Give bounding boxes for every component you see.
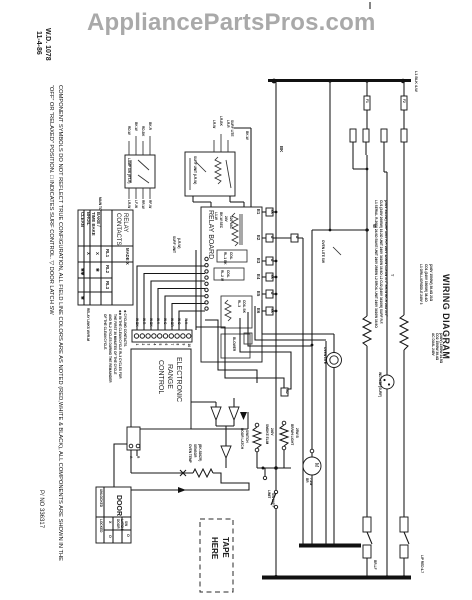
svg-text:E2: E2 [256,235,261,241]
wire line x333 oven lite [333,334,335,545]
note cycling contacts [103,310,127,383]
bottom bus L2 [262,575,411,580]
svg-text:OVEN LITE: OVEN LITE [323,347,327,364]
table header relay contacts [115,213,130,265]
svg-text:BROIL: BROIL [86,212,91,226]
wire stubs above SW2 [214,134,228,152]
svg-text:CO2 1500W 38.4Ω: CO2 1500W 38.4Ω [435,333,439,361]
wire line x367 lower [366,346,368,517]
wire main line BK x276 [275,81,277,577]
oven lite lamp [327,353,342,368]
lamp IND LITE SURF [380,375,394,389]
label 120 VAC [214,212,233,229]
table row labels [80,212,101,236]
svg-text:RL2: RL2 [105,265,110,274]
label W2 box [281,388,289,396]
svg-text:6: 6 [164,344,168,346]
svg-text:W-BK: W-BK [149,318,153,327]
svg-text:SW: SW [124,521,128,526]
triangle connector V1 [191,402,221,426]
svg-text:UNLOCKED: UNLOCKED [99,489,103,508]
tape here box [200,519,233,592]
svg-text:RL-3: RL-3 [237,300,241,307]
relay RL2 box [214,268,244,281]
svg-text:AppliancePartsPros.com: AppliancePartsPros.com [87,9,376,36]
svg-text:BK: BK [270,309,274,314]
svg-text:(240V) 2350W 24.5Ω: (240V) 2350W 24.5Ω [439,333,443,364]
svg-text:DOOR LATCH: DOOR LATCH [240,428,244,450]
svg-text:COIL: COIL [226,270,230,278]
table RL labels [105,249,110,290]
connector pin numbers [135,344,191,348]
switch diag x367 [367,532,372,544]
wire line x330 [329,81,331,230]
fuse F2 [401,81,407,129]
svg-text:RL3: RL3 [105,281,110,290]
svg-text:LIP RED 4-7: LIP RED 4-7 [420,555,424,573]
labels above SW2 [212,116,230,128]
wire E1 [262,208,277,216]
door table [96,487,131,543]
svg-text:F2: F2 [402,99,406,103]
svg-text:RD-W: RD-W [127,126,131,135]
relay contact boxes right pair [381,129,407,172]
oven lite switch [321,240,341,263]
relay board left terminals [205,257,208,310]
svg-text:SWITCH: SWITCH [245,430,249,443]
labels E1-E6 [256,209,261,314]
label oven light [290,424,299,445]
svg-text:SW 240°F: SW 240°F [271,493,275,508]
svg-text:OF THE CLEAN CYCLE.: OF THE CLEAN CYCLE. [103,314,107,350]
svg-text:X: X [86,252,91,255]
wire to bus x404 [403,558,405,577]
svg-text:11-4-86: 11-4-86 [35,31,42,55]
svg-text:MADE X: MADE X [125,248,130,265]
svg-text:IND LITE (SURF): IND LITE (SURF) [378,372,382,397]
svg-text:SENSOR: SENSOR [193,444,197,458]
svg-text:F1: F1 [365,99,369,103]
svg-text:✱ CYCLING CONTACTS.: ✱ CYCLING CONTACTS. [123,310,127,347]
svg-text:HERE: HERE [210,537,219,560]
svg-text:7: 7 [170,344,174,346]
svg-text:3: 3 [147,344,151,346]
wire E5 [262,290,277,298]
table X marks [80,252,100,300]
svg-text:RELAY: RELAY [122,213,128,232]
wire line x404 [403,142,405,315]
smoke eliminator R1 [253,423,261,468]
wire color labels above connector [135,318,188,327]
svg-text:W-R: W-R [142,318,146,325]
svg-text:BLOWER: BLOWER [232,337,236,352]
wire stubs above SW1 [129,136,150,155]
svg-text:RELAY LINKS WVR-M: RELAY LINKS WVR-M [86,308,90,341]
wire E2 [262,234,303,242]
svg-text:W: W [295,236,299,239]
svg-text:W-Y: W-Y [156,318,160,325]
wire line x404 lower [403,350,405,517]
svg-text:(BK-528ZR): (BK-528ZR) [198,444,202,461]
svg-text:BK-R: BK-R [148,122,152,131]
svg-text:OVEN LITE SW: OVEN LITE SW [321,240,325,263]
svg-text:O: O [126,534,130,537]
svg-text:E6: E6 [256,308,261,314]
svg-text:7.2W: 7.2W [309,478,313,485]
svg-text:O: O [108,535,112,538]
svg-text:✱: ✱ [80,296,85,300]
svg-text:BK: BK [279,146,284,153]
svg-text:L1 GRILL/GRIDDLE 240V 3: L1 GRILL/GRIDDLE 240V 3 [419,264,423,305]
svg-text:BK-W: BK-W [134,122,138,131]
svg-text:W-V: W-V [184,318,188,325]
svg-text:LR-W: LR-W [127,200,131,208]
svg-text:RANGE: RANGE [166,364,173,389]
svg-text:LIMIT: LIMIT [267,490,271,498]
svg-text:L1-W: L1-W [214,212,218,220]
svg-text:9: 9 [181,344,185,346]
label oven temp sensor [188,444,202,464]
wire line x312 [311,230,314,545]
wire x196 to ERC strip [195,250,197,330]
ERC connector strip [132,330,192,342]
spec text column bake broil [374,200,388,328]
svg-text:BK-W: BK-W [245,131,249,140]
svg-text:W: W [270,236,274,239]
label limit sw [267,490,275,508]
wire bundle relay board to ERC [137,266,205,331]
labels above SW1 [127,122,152,137]
top edge tick [369,2,371,9]
relay RL3 box [221,296,252,328]
svg-text:BR: BR [305,478,309,483]
svg-text:W: W [270,259,274,262]
wire y468 [257,466,291,479]
svg-text:RF-W: RF-W [148,200,152,208]
relay RL1 box [217,250,247,265]
wire E6 [262,307,277,315]
svg-text:M: M [313,463,319,467]
svg-text:LR-W: LR-W [212,120,216,128]
svg-text:LR-R: LR-R [226,120,230,128]
svg-text:2: 2 [141,344,145,346]
svg-text:25W B: 25W B [295,428,299,438]
svg-text:120 VAC: 120 VAC [229,216,233,229]
fuse F1 [364,81,370,129]
svg-text:RR-W: RR-W [141,200,145,209]
surf unit switch box SW2 [185,152,235,196]
relay contact boxes left pair [350,129,369,169]
svg-text:E1: E1 [256,209,261,215]
label unlocked locked [99,489,103,533]
wire tab to door table [114,444,127,489]
svg-text:E4: E4 [256,274,261,280]
svg-text:240V: 240V [270,428,274,436]
spec text ac dual [431,333,443,364]
svg-text:CO1 (240V 1500W) 38.4Ω: CO1 (240V 1500W) 38.4Ω [424,264,428,302]
label electronic range control [157,357,182,402]
limit switch [271,490,278,508]
switch diag x404 [404,532,409,544]
svg-text:CLEAN: CLEAN [80,212,85,227]
wire bundle ERC to right [196,300,334,392]
svg-text:AC DUAL 240V: AC DUAL 240V [431,333,435,356]
relay board U2 [201,207,262,362]
wire line x326 [325,341,327,545]
oven temp sensor loop [129,450,249,493]
svg-text:W: W [270,292,274,295]
labels below SW1 [127,200,152,209]
motor M1 [303,449,321,475]
interlock box lower x367 [363,545,371,558]
svg-text:1: 1 [135,344,139,346]
blower relay box [221,334,250,358]
svg-text:AND RL2 CYCLES DURING THE REMA: AND RL2 CYCLES DURING THE REMAINDER [108,314,112,383]
svg-text:10: 10 [187,344,191,348]
wire E4 [262,273,277,281]
wire line x387 lower [386,389,388,577]
relay contacts table [78,210,133,305]
svg-text:BR-LF: BR-LF [373,560,377,570]
svg-text:ELECTRONIC: ELECTRONIC [175,357,182,402]
svg-text:X: X [95,252,100,255]
neutral mid bar [299,544,361,548]
svg-text:L1 BLK 4-W: L1 BLK 4-W [414,71,418,92]
svg-text:W-BR: W-BR [170,318,174,327]
wire line x367 [366,155,369,316]
svg-text:(240V 3410W) SURF UNIT R.F. 24: (240V 3410W) SURF UNIT R.F. 240V 1250W C… [384,200,388,317]
svg-text:OVEN TEMP: OVEN TEMP [188,444,192,464]
svg-text:COIL BK: COIL BK [242,300,246,314]
svg-text:BK: BK [270,275,274,280]
svg-text:BK: BK [270,210,274,215]
svg-text:DOOR: DOOR [115,495,122,516]
svg-text:DOOR: DOOR [116,519,120,529]
svg-text:✱✱ IN THE CLEAN CYCLE RL3 CYCL: ✱✱ IN THE CLEAN CYCLE RL3 CYCLES FOR [118,310,122,379]
svg-text:LF-W: LF-W [134,200,138,208]
svg-text:CONTROL: CONTROL [157,360,164,394]
svg-text:24V: 24V [224,216,228,223]
wire stubs below SW1 [129,188,150,199]
svg-text:“OFF” OR “RELAXED” POSITION. □: “OFF” OR “RELAXED” POSITION. □ INDICATES… [48,85,54,315]
wire SW2 to relay board [193,196,244,207]
svg-text:✱: ✱ [95,268,100,272]
svg-text:W-BK: W-BK [135,318,139,327]
svg-text:L1 SERIAL R-206V 24.6Ω BAKE UN: L1 SERIAL R-206V 24.6Ω BAKE UNIT 240V 25… [374,200,378,328]
resistor broil unit [363,316,371,346]
wire line x387 [386,172,388,375]
svg-text:P/ NO 336317: P/ NO 336317 [38,490,44,529]
lamp switch box SW1 [125,155,155,188]
svg-text:E5: E5 [256,291,261,297]
svg-text:(240V 1500W) 38.4Ω 21Ω: (240V 1500W) 38.4Ω 21Ω [429,264,433,302]
svg-text:W-G: W-G [163,318,167,325]
wire to bus x367 [366,558,368,577]
svg-text:SURF UNIT (LR-W): SURF UNIT (LR-W) [193,156,197,184]
labels riser [230,120,249,140]
svg-text:TAPE: TAPE [221,537,230,558]
svg-text:THE FIRST 30 MINUTES OF THE CY: THE FIRST 30 MINUTES OF THE CYCLE [113,314,117,374]
ERC sensor tab [127,427,140,450]
triangle connector V3 [221,426,231,468]
wire riser to relay board [234,128,251,207]
svg-text:✱✱: ✱✱ [80,268,85,276]
svg-text:COMPONENT SYMBOLS DO NOT REFLE: COMPONENT SYMBOLS DO NOT REFLECT TRUE CO… [57,85,63,561]
svg-text:LR-BK: LR-BK [219,116,223,127]
door latch sw cells [108,519,130,538]
interlock box lower x404 [400,545,408,558]
svg-text:8: 8 [176,344,180,346]
arrow marker [240,412,247,420]
svg-text:RL-1 BK: RL-1 BK [223,252,227,265]
svg-text:RL1: RL1 [105,249,110,258]
svg-text:E3: E3 [256,258,261,264]
svg-text:COIL: COIL [229,252,233,260]
label door latch switch [240,428,249,450]
aux box E7 [244,333,252,344]
label BR 7.2W [305,478,313,485]
wire line x303 [302,238,304,545]
wire horiz y230 [312,228,369,231]
E wire color letters [270,210,299,314]
interlock box upper x367 [363,517,371,532]
triangle connector V2 [216,398,239,426]
svg-text:RD-BK: RD-BK [141,126,145,137]
ERC box U1 [131,349,191,429]
spec text column grill [419,264,433,305]
oven light R2 [280,421,288,468]
svg-text:4: 4 [152,344,156,346]
transformer T1 [232,213,242,246]
svg-text:5: 5 [158,344,162,346]
interlock box upper x404 [400,517,408,532]
svg-text:W2: W2 [285,389,289,394]
svg-text:BK-W SEC: BK-W SEC [219,212,223,229]
wire top bus L1 [268,79,411,84]
label smoke elim [265,424,274,445]
wire ERC bottom extension [191,412,248,429]
wire E3 [262,257,277,265]
svg-text:RL-2 W: RL-2 W [220,270,224,281]
svg-text:LATCH: LATCH [120,519,124,530]
svg-text:BR/WH LIGHT: BR/WH LIGHT [290,424,294,445]
svg-text:LOCKED: LOCKED [99,519,103,533]
svg-text:SMOKE ELIM: SMOKE ELIM [265,424,269,445]
svg-text:W-O: W-O [177,318,181,325]
svg-text:SURF LITE: SURF LITE [230,120,234,136]
svg-text:CU1 (240V 2685W) 19.2Ω UNIT 24: CU1 (240V 2685W) 19.2Ω UNIT 240V 3410W 1… [379,200,383,324]
svg-text:LAMP SW (RT-R): LAMP SW (RT-R) [127,158,131,183]
svg-text:W.D. 1078: W.D. 1078 [44,28,51,61]
svg-text:RELAY BOARD: RELAY BOARD [207,210,214,259]
label surf unit left [172,236,181,253]
svg-text:(LR-W): (LR-W) [177,238,181,248]
svg-text:SURF UNIT: SURF UNIT [172,236,176,253]
resistor grill [400,315,408,350]
svg-text:CONTACTS: CONTACTS [115,213,121,246]
